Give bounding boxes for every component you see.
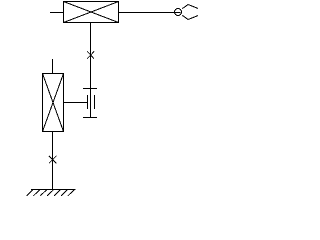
gripper wrist circle xyxy=(175,9,182,16)
screw-nut lower flange tick xyxy=(83,117,97,119)
wire input shaft stub (left of motor M1) xyxy=(50,12,64,14)
gripper jaw lower xyxy=(182,15,198,19)
ground hatching xyxy=(26,190,74,196)
wire vertical drive shaft from M1 xyxy=(90,23,92,118)
screw-nut upper flange tick xyxy=(83,88,97,90)
wire column lower shaft xyxy=(52,132,54,190)
wire horizontal arm shaft to gripper xyxy=(119,12,181,14)
wire connector from column M2 to nut xyxy=(64,102,88,104)
actuator M2 (crossed box, vertical) xyxy=(43,74,64,132)
screw-nut left bar xyxy=(87,95,89,109)
wire column top stub xyxy=(52,59,54,74)
gripper jaw upper xyxy=(182,5,198,9)
motor M1 (crossed box, horizontal) xyxy=(64,2,119,23)
coupling X1 on vertical shaft xyxy=(87,51,94,59)
screw-nut right bar xyxy=(94,95,96,109)
ground base line xyxy=(31,189,76,191)
coupling X2 on lower shaft xyxy=(49,156,57,164)
